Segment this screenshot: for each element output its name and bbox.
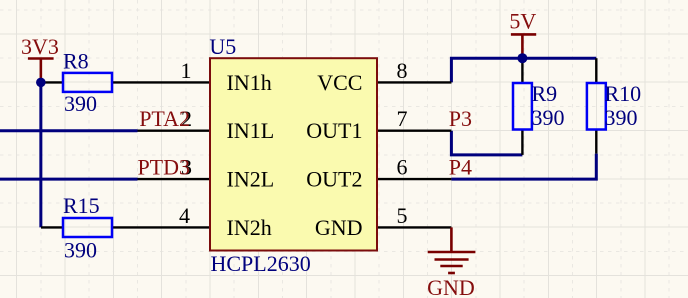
pin 3 line	[138, 178, 211, 180]
pin 7 line	[377, 129, 451, 131]
svg-text:PTA2: PTA2	[139, 106, 190, 131]
resistor R8 body	[63, 73, 112, 92]
svg-text:3V3: 3V3	[21, 34, 59, 59]
svg-text:GND: GND	[427, 275, 475, 298]
svg-text:OUT2: OUT2	[306, 167, 362, 192]
svg-text:390: 390	[532, 105, 565, 130]
IC U5 optocoupler HCPL2630 body	[210, 58, 377, 250]
svg-text:IN1h: IN1h	[227, 70, 272, 95]
svg-text:U5: U5	[209, 34, 236, 59]
ground bar 3	[440, 265, 462, 268]
ground bar 1	[428, 251, 476, 254]
svg-text:P3: P3	[449, 106, 472, 131]
svg-text:P4: P4	[449, 155, 472, 180]
wire 3V3 vertical bus	[39, 82, 42, 227]
svg-text:390: 390	[605, 105, 638, 130]
svg-text:7: 7	[397, 106, 408, 131]
power port 5V bar	[511, 33, 536, 36]
svg-text:5: 5	[397, 203, 408, 228]
wire row2 from left edge	[0, 129, 138, 132]
svg-text:OUT1: OUT1	[306, 118, 362, 143]
svg-text:PTD3: PTD3	[137, 155, 190, 180]
pin 1 line	[41, 81, 210, 83]
svg-text:VCC: VCC	[317, 70, 362, 95]
svg-text:5V: 5V	[509, 9, 536, 34]
power port 3V3 stem	[40, 59, 43, 79]
pin 2 line	[138, 129, 211, 131]
junction dot at 5V rail	[517, 53, 527, 63]
svg-text:IN1L: IN1L	[227, 118, 275, 143]
wire row3 from left edge	[0, 178, 138, 181]
svg-text:R9: R9	[532, 81, 558, 106]
power port 5V stem	[521, 35, 524, 58]
wire pin7 to R9 bottom	[451, 131, 522, 155]
resistor R15 body	[63, 218, 112, 237]
svg-text:HCPL2630: HCPL2630	[211, 251, 311, 276]
svg-text:390: 390	[64, 91, 97, 116]
ground bar 4	[448, 272, 455, 275]
pin 8 line	[377, 81, 451, 83]
svg-text:R15: R15	[63, 193, 100, 218]
R9 top pin	[521, 58, 523, 83]
svg-text:6: 6	[397, 155, 408, 180]
resistor R10 body	[587, 83, 606, 130]
svg-text:IN2L: IN2L	[227, 167, 275, 192]
svg-text:GND: GND	[315, 215, 363, 240]
junction dot at 3V3/R8	[36, 78, 46, 88]
svg-text:IN2h: IN2h	[227, 215, 272, 240]
svg-text:4: 4	[179, 203, 190, 228]
wire pin6 to R10 bottom	[451, 154, 596, 180]
svg-text:R8: R8	[63, 49, 89, 74]
wire pin8 to 5V rail	[451, 58, 596, 82]
R10 top pin	[595, 58, 597, 83]
svg-text:R10: R10	[605, 81, 642, 106]
pin 4 line	[41, 226, 210, 228]
R9 bottom pin	[521, 130, 523, 155]
svg-text:8: 8	[397, 58, 408, 83]
ground bar 2	[435, 258, 469, 261]
svg-text:1: 1	[181, 58, 192, 83]
ground GND stem	[450, 227, 453, 252]
power port 3V3 bar	[28, 57, 54, 60]
svg-text:390: 390	[64, 238, 97, 263]
R10 bottom pin	[595, 130, 597, 154]
resistor R9 body	[513, 83, 532, 130]
pin 6 line	[377, 178, 451, 180]
pin 5 line	[377, 226, 451, 228]
